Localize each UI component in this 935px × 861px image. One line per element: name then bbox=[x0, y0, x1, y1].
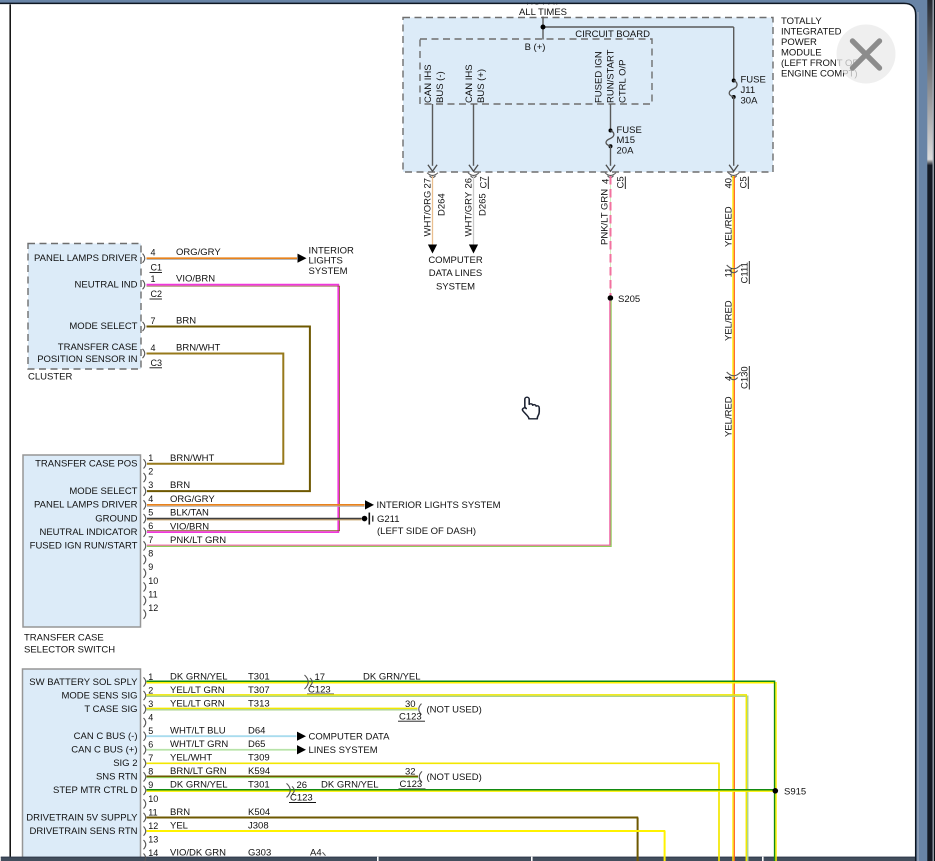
svg-text:BLK/TAN: BLK/TAN bbox=[170, 508, 209, 519]
svg-text:C1: C1 bbox=[151, 263, 163, 273]
svg-text:7: 7 bbox=[148, 535, 153, 545]
svg-text:K594: K594 bbox=[248, 766, 270, 777]
svg-text:POWER: POWER bbox=[781, 37, 817, 48]
svg-text:RUN/START: RUN/START bbox=[606, 49, 617, 103]
svg-text:TRANSFER CASE: TRANSFER CASE bbox=[58, 342, 138, 353]
svg-text:G303: G303 bbox=[248, 847, 271, 858]
svg-text:A4: A4 bbox=[310, 847, 322, 858]
svg-text:2: 2 bbox=[148, 685, 153, 695]
svg-text:DK GRN/YEL: DK GRN/YEL bbox=[321, 780, 379, 791]
svg-text:7: 7 bbox=[148, 753, 153, 763]
svg-text:5: 5 bbox=[148, 507, 153, 517]
svg-text:7: 7 bbox=[151, 316, 156, 326]
svg-text:10: 10 bbox=[148, 576, 158, 586]
svg-text:BUS (+): BUS (+) bbox=[476, 69, 487, 103]
svg-text:BUS (-): BUS (-) bbox=[435, 71, 446, 103]
svg-text:STEP MTR CTRL D: STEP MTR CTRL D bbox=[53, 785, 138, 796]
svg-text:S915: S915 bbox=[784, 786, 806, 797]
svg-text:TRANSFER CASE POS: TRANSFER CASE POS bbox=[35, 459, 137, 470]
svg-text:PANEL LAMPS DRIVER: PANEL LAMPS DRIVER bbox=[34, 253, 138, 264]
svg-text:CIRCUIT BOARD: CIRCUIT BOARD bbox=[575, 29, 650, 40]
svg-text:C2: C2 bbox=[151, 289, 163, 299]
svg-text:T309: T309 bbox=[248, 753, 270, 764]
svg-text:PNK/LT GRN: PNK/LT GRN bbox=[600, 189, 611, 245]
svg-text:B (+): B (+) bbox=[525, 42, 546, 53]
svg-text:CAN C BUS (+): CAN C BUS (+) bbox=[71, 745, 137, 756]
svg-text:BRN/WHT: BRN/WHT bbox=[170, 453, 215, 464]
svg-text:FUSE: FUSE bbox=[617, 125, 642, 136]
svg-text:SELECTOR SWITCH: SELECTOR SWITCH bbox=[24, 644, 115, 655]
svg-text:WHT/LT GRN: WHT/LT GRN bbox=[170, 739, 228, 750]
svg-text:3: 3 bbox=[148, 699, 153, 709]
svg-text:9: 9 bbox=[148, 780, 153, 790]
svg-text:BRN/LT GRN: BRN/LT GRN bbox=[170, 766, 227, 777]
svg-text:ALL TIMES: ALL TIMES bbox=[519, 7, 567, 18]
svg-text:VIO/DK GRN: VIO/DK GRN bbox=[170, 847, 226, 858]
svg-text:4: 4 bbox=[151, 248, 156, 258]
svg-text:CTRL O/P: CTRL O/P bbox=[618, 60, 629, 103]
svg-text:DRIVETRAIN SENS RTN: DRIVETRAIN SENS RTN bbox=[29, 826, 137, 837]
svg-text:11: 11 bbox=[148, 590, 157, 600]
svg-text:26: 26 bbox=[297, 780, 308, 791]
svg-text:MODE SELECT: MODE SELECT bbox=[69, 486, 137, 497]
svg-text:(NOT USED): (NOT USED) bbox=[427, 772, 482, 783]
svg-text:S205: S205 bbox=[618, 294, 640, 305]
svg-text:K504: K504 bbox=[248, 807, 270, 818]
svg-text:4: 4 bbox=[151, 343, 156, 353]
svg-text:M15: M15 bbox=[617, 135, 635, 146]
svg-text:17: 17 bbox=[315, 672, 326, 683]
svg-text:LINES SYSTEM: LINES SYSTEM bbox=[309, 745, 378, 756]
svg-text:12: 12 bbox=[148, 603, 158, 613]
svg-text:D264: D264 bbox=[437, 193, 448, 216]
svg-text:4: 4 bbox=[148, 494, 153, 504]
svg-text:(LEFT SIDE OF DASH): (LEFT SIDE OF DASH) bbox=[377, 526, 476, 537]
svg-text:30A: 30A bbox=[741, 95, 759, 106]
svg-text:YEL: YEL bbox=[170, 820, 188, 831]
svg-text:YEL/RED: YEL/RED bbox=[724, 396, 735, 437]
svg-text:PANEL LAMPS DRIVER: PANEL LAMPS DRIVER bbox=[34, 500, 138, 511]
svg-text:INTERIOR LIGHTS SYSTEM: INTERIOR LIGHTS SYSTEM bbox=[377, 500, 501, 511]
svg-text:MODE SENS SIG: MODE SENS SIG bbox=[61, 690, 137, 701]
svg-text:D265: D265 bbox=[478, 193, 489, 216]
svg-text:YEL/RED: YEL/RED bbox=[724, 300, 735, 341]
svg-text:CAN IHS: CAN IHS bbox=[464, 64, 475, 103]
svg-text:14: 14 bbox=[148, 848, 158, 858]
svg-text:ORG/GRY: ORG/GRY bbox=[170, 494, 215, 505]
svg-text:(NOT USED): (NOT USED) bbox=[427, 704, 482, 715]
svg-text:8: 8 bbox=[148, 767, 153, 777]
svg-text:TOTALLY: TOTALLY bbox=[781, 16, 822, 27]
svg-text:20A: 20A bbox=[617, 146, 635, 157]
svg-text:COMPUTER DATA: COMPUTER DATA bbox=[309, 732, 391, 743]
svg-text:FUSE: FUSE bbox=[741, 75, 766, 86]
svg-text:6: 6 bbox=[148, 521, 153, 531]
svg-text:J308: J308 bbox=[248, 820, 269, 831]
svg-text:13: 13 bbox=[148, 834, 158, 844]
svg-text:4: 4 bbox=[724, 376, 735, 381]
svg-text:BRN: BRN bbox=[170, 480, 190, 491]
svg-text:POSITION SENSOR IN: POSITION SENSOR IN bbox=[37, 354, 137, 365]
svg-text:FUSED IGN: FUSED IGN bbox=[594, 51, 605, 103]
svg-text:ORG/GRY: ORG/GRY bbox=[176, 247, 221, 258]
svg-text:CAN IHS: CAN IHS bbox=[423, 64, 434, 103]
svg-text:2: 2 bbox=[148, 466, 153, 476]
svg-text:4: 4 bbox=[148, 712, 153, 722]
svg-text:SW BATTERY SOL SPLY: SW BATTERY SOL SPLY bbox=[29, 677, 138, 688]
svg-text:9: 9 bbox=[148, 562, 153, 572]
svg-text:CLUSTER: CLUSTER bbox=[28, 372, 72, 383]
svg-text:INTEGRATED: INTEGRATED bbox=[781, 27, 842, 38]
svg-text:3: 3 bbox=[148, 480, 153, 490]
svg-text:12: 12 bbox=[148, 821, 158, 831]
svg-text:SNS RTN: SNS RTN bbox=[96, 772, 138, 783]
svg-text:SYSTEM: SYSTEM bbox=[436, 281, 475, 292]
svg-text:PNK/LT GRN: PNK/LT GRN bbox=[170, 535, 226, 546]
svg-text:SIG 2: SIG 2 bbox=[113, 758, 137, 769]
svg-text:10: 10 bbox=[148, 794, 158, 804]
svg-text:TRANSFER CASE: TRANSFER CASE bbox=[24, 632, 104, 643]
svg-text:GROUND: GROUND bbox=[95, 513, 137, 524]
svg-text:NEUTRAL IND: NEUTRAL IND bbox=[75, 279, 138, 290]
svg-text:COMPUTER: COMPUTER bbox=[428, 255, 483, 266]
svg-text:C3: C3 bbox=[151, 358, 163, 368]
svg-text:D64: D64 bbox=[248, 726, 265, 737]
svg-text:MODULE: MODULE bbox=[781, 48, 822, 59]
svg-text:11: 11 bbox=[148, 807, 157, 817]
svg-text:6: 6 bbox=[148, 740, 153, 750]
svg-text:MODE SELECT: MODE SELECT bbox=[69, 321, 137, 332]
svg-text:D65: D65 bbox=[248, 739, 265, 750]
svg-text:YEL/WHT: YEL/WHT bbox=[170, 753, 212, 764]
svg-text:DATA LINES: DATA LINES bbox=[429, 268, 483, 279]
svg-text:DRIVETRAIN 5V SUPPLY: DRIVETRAIN 5V SUPPLY bbox=[26, 812, 138, 823]
svg-text:32: 32 bbox=[405, 767, 416, 778]
svg-text:T CASE SIG: T CASE SIG bbox=[84, 704, 137, 715]
svg-text:1: 1 bbox=[151, 274, 156, 284]
svg-text:1: 1 bbox=[148, 453, 153, 463]
svg-text:FUSED IGN RUN/START: FUSED IGN RUN/START bbox=[30, 541, 138, 552]
svg-text:VIO/BRN: VIO/BRN bbox=[176, 274, 215, 285]
svg-text:8: 8 bbox=[148, 548, 153, 558]
svg-text:BRN: BRN bbox=[176, 316, 196, 327]
svg-text:1: 1 bbox=[148, 672, 153, 682]
svg-text:VIO/BRN: VIO/BRN bbox=[170, 521, 209, 532]
svg-text:NEUTRAL INDICATOR: NEUTRAL INDICATOR bbox=[39, 527, 137, 538]
svg-text:SYSTEM: SYSTEM bbox=[309, 266, 348, 277]
svg-text:DK GRN/YEL: DK GRN/YEL bbox=[363, 671, 421, 682]
svg-text:11: 11 bbox=[724, 268, 735, 278]
svg-text:WHT/LT BLU: WHT/LT BLU bbox=[170, 726, 226, 737]
svg-text:G211: G211 bbox=[377, 514, 400, 525]
svg-text:CAN C BUS (-): CAN C BUS (-) bbox=[74, 731, 138, 742]
svg-text:BRN/WHT: BRN/WHT bbox=[176, 343, 221, 354]
svg-text:30: 30 bbox=[405, 699, 416, 710]
svg-text:5: 5 bbox=[148, 726, 153, 736]
svg-text:BRN: BRN bbox=[170, 807, 190, 818]
